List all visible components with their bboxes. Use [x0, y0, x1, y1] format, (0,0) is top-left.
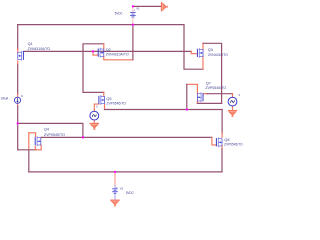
wire Q3 source stub [202, 57, 204, 69]
node dot left column junction [17, 122, 19, 124]
svg-text:Q3: Q3 [208, 48, 213, 52]
transistor Q2 [98, 48, 104, 58]
wire Q4 source stub [40, 145, 42, 150]
svg-text:ZVP0545/TO: ZVP0545/TO [44, 133, 65, 137]
wire gate rail [24, 50, 191, 52]
wire current source bottom to Q4 row [17, 103, 19, 106]
battery V2 [112, 189, 118, 193]
node dot bottom rail / V2 [114, 171, 116, 173]
wire Q7 drain loop [187, 84, 198, 93]
svg-text:5VDC: 5VDC [115, 12, 123, 16]
svg-text:V2: V2 [120, 187, 124, 191]
wire Q4 gate jog [34, 146, 36, 149]
wire main line drop to Q8 drain [221, 110, 223, 134]
wire left column top (rail to Q1 drain) [17, 25, 19, 49]
svg-text:ZVN4310/TO: ZVN4310/TO [208, 53, 228, 57]
svg-text:Q4: Q4 [44, 128, 49, 132]
wire Q4 loop down to bottom rail [28, 133, 30, 150]
wire Q5 drain stub [103, 92, 105, 96]
transistor Q8 [216, 137, 222, 147]
svg-text:Q2: Q2 [106, 48, 111, 52]
transistor Q4 [35, 136, 41, 146]
svg-text:Q1: Q1 [28, 42, 33, 46]
svg-text:+: + [133, 9, 135, 12]
wire top rail [18, 24, 184, 26]
svg-text:0: 0 [239, 93, 241, 97]
current source I1 [14, 97, 20, 103]
wire Q8 gate jog [212, 137, 217, 145]
transistor Q7 [197, 92, 203, 102]
ground below ac1 [90, 124, 99, 130]
wire branch from current-source junction [18, 123, 83, 137]
wire Q8 source stub [221, 146, 223, 149]
svg-text:Q7: Q7 [206, 81, 211, 85]
svg-text:0: 0 [96, 104, 98, 108]
wire Q2 drain stub [103, 44, 105, 49]
wire Q4 gate row [18, 149, 36, 151]
wire Q2 gate jog [93, 51, 98, 55]
wire Q2 source to battery column [104, 56, 133, 59]
wire Q3 drain up and over [202, 43, 204, 49]
svg-text:Q5: Q5 [106, 97, 111, 101]
transistor Q1 [18, 51, 24, 61]
wire V2 symbol leads (blue) [114, 186, 116, 189]
wire long mid-low line Q4 drain to Q8 gate [41, 136, 212, 138]
node dot V1 bottom on rail [132, 24, 134, 26]
wire mid main line [105, 109, 223, 111]
transistor Q5 [99, 95, 105, 105]
svg-text:V1: V1 [136, 6, 140, 10]
node dot long line junction [82, 136, 84, 138]
wire Q5 source corner [104, 104, 106, 109]
ac source V4 (right) [228, 97, 237, 106]
wire ac2 bottom stub [232, 106, 234, 110]
wire V1 top to right-ground [133, 5, 161, 7]
wire rail right drop to Q3 source [184, 25, 203, 70]
wire Q2/Q5 drain loop [83, 44, 104, 93]
wire Q3 gate jog [191, 51, 197, 53]
svg-text:ZVP0545/TO: ZVP0545/TO [224, 142, 243, 146]
wire bottom rail [29, 171, 222, 173]
node dot main line / Q7 loop [186, 108, 188, 110]
ground below V2 [110, 200, 119, 206]
node dot gate rail / Q2 [92, 50, 94, 52]
svg-text:5VDC: 5VDC [126, 191, 134, 195]
wire Q1 source to current source [17, 61, 19, 65]
wire V2 top stub [114, 172, 116, 186]
transistor Q3 [197, 48, 203, 58]
wire Q7 source to Q3 drain column [196, 101, 198, 104]
svg-text:ZVP0545/TO: ZVP0545/TO [205, 86, 226, 90]
wire Q5 gate to ac source [94, 104, 99, 111]
battery V1 [130, 13, 136, 17]
ground arrow right (net 0 at V1 plus) [162, 2, 168, 11]
svg-text:100uA: 100uA [1, 97, 9, 101]
ac source V3 (left) [90, 111, 99, 120]
svg-text:I1: I1 [21, 94, 24, 98]
wire Q7 gate to ac source 2 [203, 93, 207, 95]
wire Q4 drain loop [29, 133, 36, 137]
svg-text:ZVN4310A/TO: ZVN4310A/TO [28, 47, 51, 51]
svg-text:Q8: Q8 [224, 138, 229, 142]
wire V1 pin stubs [132, 6, 134, 12]
ground below ac2 [228, 111, 237, 117]
svg-text:ZVP0545/TO: ZVP0545/TO [106, 102, 126, 106]
node dot V1 top [132, 5, 134, 7]
svg-text:ZVN4310A/TO: ZVN4310A/TO [106, 53, 129, 57]
wire ac1 bottom stub [93, 120, 95, 123]
